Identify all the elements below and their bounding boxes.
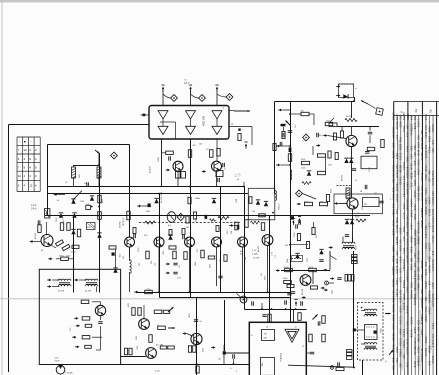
box IC2 outline [249, 322, 306, 375]
capacitor C79 [288, 130, 292, 132]
resistor R82 [157, 325, 165, 330]
svg-text:78017: 78017 [395, 277, 399, 285]
svg-text:82965: 82965 [402, 112, 406, 120]
wire block1 top y144 [48, 144, 130, 146]
chain R33 [182, 229, 185, 240]
label mr1 [316, 235, 318, 238]
svg-text:4M: 4M [264, 338, 267, 340]
capacitor C99 [300, 301, 303, 305]
resistor R43 [205, 215, 208, 218]
svg-text:067: 067 [406, 124, 410, 129]
svg-text:2492: 2492 [402, 125, 406, 132]
svg-text:→: → [18, 140, 21, 144]
resistor R23 [82, 336, 102, 339]
terminal J1 [330, 366, 334, 370]
pin R64 left [297, 203, 301, 206]
wire ic left [233, 359, 235, 365]
svg-text:BC204: BC204 [35, 233, 37, 239]
capacitor C72 in box [365, 151, 369, 153]
svg-text:449: 449 [427, 170, 431, 175]
svg-text:534: 534 [424, 144, 428, 149]
svg-text:45624: 45624 [417, 167, 421, 175]
wire vertical x224 [224, 300, 226, 351]
wire vertical x220 [220, 187, 222, 293]
pin R21 [74, 317, 78, 320]
label rf2 [319, 135, 323, 137]
resistor R81 [154, 310, 170, 313]
label ts1 e [41, 250, 44, 252]
svg-text:3: 3 [236, 371, 237, 373]
label TR2 [85, 291, 92, 293]
svg-text:423: 423 [402, 354, 406, 359]
svg-text:14712: 14712 [420, 209, 424, 217]
svg-text:77400: 77400 [431, 235, 435, 243]
resistor R71 [367, 147, 375, 150]
svg-text:373: 373 [395, 134, 399, 139]
svg-text:T04/1,3: T04/1,3 [279, 204, 281, 210]
arrow pot1 [168, 307, 174, 312]
svg-text:63932: 63932 [424, 206, 428, 214]
svg-text:4446: 4446 [406, 145, 410, 152]
svg-text:02949: 02949 [431, 299, 435, 307]
svg-text:32567: 32567 [424, 335, 428, 343]
svg-text:10: 10 [295, 327, 297, 329]
svg-text:03340: 03340 [395, 265, 399, 273]
arrow output right of U1 [234, 110, 250, 112]
svg-text:3949: 3949 [417, 149, 421, 156]
label T04 [279, 204, 281, 210]
transformer TR5 core [365, 325, 378, 340]
diode D15 [90, 195, 94, 200]
svg-text:0085: 0085 [417, 283, 421, 290]
wire TS1 emitter diag [50, 245, 56, 249]
capacitor C91 [251, 301, 253, 305]
svg-text:73268: 73268 [424, 281, 428, 289]
scan left edge [2, 0, 3, 375]
wire bottom y364 [40, 364, 250, 366]
pin x281 y110 [278, 109, 290, 112]
svg-text:888: 888 [392, 357, 396, 362]
svg-text:7566: 7566 [427, 256, 431, 263]
label rf1 [295, 124, 297, 128]
svg-text:M: M [219, 358, 222, 360]
svg-text:8369: 8369 [417, 256, 421, 263]
resistor R4 [77, 229, 80, 237]
svg-text:3114: 3114 [424, 165, 428, 172]
svg-text:00905: 00905 [427, 264, 431, 272]
pin x323 y288 [321, 287, 325, 290]
transistor TS16 [262, 235, 273, 246]
svg-text:851: 851 [424, 261, 428, 266]
svg-text:3063: 3063 [146, 211, 150, 213]
transistor TS17 [300, 275, 311, 286]
transistor TS1 [41, 235, 53, 247]
wire y182 corner [243, 182, 245, 187]
label area c35 [80, 201, 90, 206]
arrow out right [385, 313, 390, 315]
label TS30b [136, 336, 138, 340]
label R61 [301, 159, 306, 170]
resistor R80 [132, 308, 141, 316]
svg-text:L·Br/Mic: L·Br/Mic [66, 373, 73, 375]
label u-ts13 [179, 262, 197, 268]
svg-text:81551: 81551 [420, 316, 424, 324]
capacitor C1 [86, 182, 89, 186]
svg-text:581: 581 [406, 182, 410, 187]
label 5W [328, 165, 332, 167]
svg-text:28038: 28038 [392, 333, 396, 341]
svg-text:470: 470 [406, 132, 410, 137]
diamond node D14 [303, 134, 310, 141]
label BC148 [302, 288, 304, 295]
transistor TS20 [346, 135, 357, 146]
pin P1 above U1 [161, 85, 164, 92]
svg-text:4922: 4922 [424, 131, 428, 138]
svg-text:00847: 00847 [406, 274, 410, 282]
resistor R75 [289, 111, 309, 116]
svg-text:51402: 51402 [399, 176, 403, 184]
wire bus y186 [48, 186, 245, 188]
pin TR2 a [74, 279, 78, 282]
svg-text:269: 269 [399, 362, 403, 367]
label R80 [128, 303, 130, 307]
svg-text:5096: 5096 [413, 270, 417, 277]
svg-text:4650: 4650 [392, 209, 396, 216]
svg-text:38(2P4): 38(2P4) [120, 221, 122, 228]
svg-text:12%: 12% [177, 278, 181, 280]
svg-text:682: 682 [413, 286, 417, 291]
pin arrow x287 [286, 121, 291, 126]
wire U1 col 3 inner [216, 119, 218, 126]
svg-text:87780: 87780 [420, 152, 424, 160]
svg-text:12: 12 [24, 148, 28, 152]
svg-text:2200: 2200 [413, 229, 417, 236]
wire U1 inner feedback [160, 122, 176, 139]
resistor R51 [245, 220, 248, 228]
resistor R29 on x129 [120, 211, 131, 228]
svg-text:933: 933 [392, 365, 396, 370]
wire vertical x129 [129, 145, 131, 238]
resistor R44 [188, 197, 191, 204]
wire vertical x73 [73, 216, 75, 293]
diode D6 on bus215 [72, 212, 76, 217]
svg-text:2x41: 2x41 [332, 290, 334, 294]
svg-text:104: 104 [231, 231, 233, 234]
svg-text:995: 995 [431, 293, 435, 298]
svg-text:23760: 23760 [406, 346, 410, 354]
component R87 [196, 366, 199, 373]
svg-text:83170: 83170 [409, 329, 413, 337]
svg-text:1k2: 1k2 [155, 263, 157, 266]
pin ant1 [336, 85, 340, 88]
label connector [31, 205, 37, 211]
svg-text:412: 412 [395, 358, 399, 363]
label mid1 [123, 217, 125, 222]
svg-text:4862: 4862 [395, 217, 399, 224]
label mid-table [139, 263, 141, 266]
junction x354 y367 [353, 367, 355, 369]
wire bus y292 [136, 292, 291, 294]
svg-text:7006: 7006 [424, 174, 428, 181]
junction y101 x354 [353, 100, 355, 102]
transistor TS12 [154, 237, 164, 247]
svg-text:603: 603 [406, 362, 410, 367]
svg-text:4MHz: 4MHz [195, 198, 200, 200]
transistor TS14 [212, 237, 222, 247]
svg-text:5941: 5941 [424, 306, 428, 313]
svg-text:2684: 2684 [392, 245, 396, 252]
op-amp U1 stage 4 [186, 126, 196, 134]
svg-text:0195: 0195 [427, 146, 431, 153]
svg-text:90798: 90798 [431, 177, 435, 185]
svg-text:4875: 4875 [189, 313, 191, 317]
table measurements values [392, 112, 435, 370]
label q1 [138, 247, 140, 252]
svg-text:8137: 8137 [406, 327, 410, 334]
svg-text:5/3,5: 5/3,5 [328, 165, 332, 167]
resistor R95 [336, 367, 344, 370]
svg-text:Sp: Sp [428, 109, 432, 113]
diamond node D11 [376, 108, 384, 116]
junction dot d [289, 145, 291, 271]
label 5806b [295, 309, 298, 311]
wire stub x313 [312, 270, 314, 284]
pin below TS6 [202, 170, 206, 173]
svg-text:3337: 3337 [402, 202, 406, 209]
capacitor C80 [189, 313, 203, 323]
label pin8 [232, 123, 234, 126]
svg-text:633: 633 [395, 209, 399, 214]
svg-text:470: 470 [220, 259, 222, 262]
junction sub-box [272, 212, 274, 214]
coil S201 sec [346, 188, 350, 199]
diode D5 on bus215 [59, 212, 63, 217]
wire bus y297 [160, 297, 291, 299]
svg-text:4822 209: 4822 209 [203, 115, 206, 126]
wire x313 up [313, 222, 315, 228]
pin y146 x279 [276, 145, 290, 148]
svg-text:623: 623 [417, 319, 421, 324]
capacitor C60 [295, 224, 298, 228]
svg-text:90786: 90786 [392, 279, 396, 287]
wire TS14 down [216, 247, 218, 286]
label 3707 [307, 258, 309, 262]
resistor R73b [328, 151, 331, 158]
svg-text:46049: 46049 [413, 190, 417, 198]
svg-text:12: 12 [18, 174, 22, 178]
svg-text:203: 203 [417, 266, 421, 271]
svg-text:8852: 8852 [409, 264, 413, 271]
svg-text:993: 993 [413, 115, 417, 120]
svg-text:74633: 74633 [402, 263, 406, 271]
resistor R22 [85, 324, 92, 327]
label BC204 [35, 233, 37, 239]
svg-text:3070: 3070 [265, 276, 267, 280]
svg-text:mV: mV [414, 109, 418, 113]
svg-text:3062: 3062 [413, 213, 417, 220]
wire vertical x269 [269, 216, 271, 323]
diode D38 [281, 124, 286, 137]
svg-text:96929: 96929 [431, 123, 435, 131]
svg-text:325: 325 [420, 137, 424, 142]
resistor R67 on y270 [284, 267, 292, 272]
svg-text:227: 227 [395, 250, 399, 255]
capacitor C50 [237, 225, 239, 229]
svg-text:608: 608 [420, 289, 424, 294]
transformer TR2 [79, 279, 98, 286]
svg-text:3132: 3132 [406, 238, 410, 245]
resistor R64 [304, 202, 313, 206]
pin TS32 base [183, 332, 192, 336]
svg-text:0780: 0780 [417, 346, 421, 353]
svg-text:15640: 15640 [402, 340, 406, 348]
svg-text:636: 636 [424, 225, 428, 230]
pin ant2 [336, 94, 340, 97]
svg-text:29975: 29975 [395, 183, 399, 191]
svg-text:8716: 8716 [413, 170, 417, 177]
svg-text:21: 21 [302, 346, 304, 348]
capacitor C30 [112, 253, 115, 256]
box R16 below TS6 [216, 171, 223, 183]
svg-text:42486: 42486 [406, 254, 410, 262]
svg-text:1605: 1605 [420, 329, 424, 336]
svg-text:805: 805 [395, 258, 399, 263]
resistor R63 [318, 171, 326, 174]
svg-text:515: 515 [427, 290, 431, 295]
junction e [261, 308, 286, 310]
svg-text:67612: 67612 [395, 169, 399, 177]
svg-text:20521: 20521 [431, 224, 435, 232]
wire TS5 emitter [177, 172, 179, 187]
resistor R20 [81, 300, 100, 305]
svg-text:409: 409 [413, 152, 417, 157]
svg-text:18437: 18437 [427, 196, 431, 204]
svg-text:6020: 6020 [402, 293, 406, 300]
svg-text:471: 471 [392, 203, 396, 208]
svg-text:04457: 04457 [427, 306, 431, 314]
diode D4 [71, 198, 75, 203]
svg-text:4834: 4834 [399, 244, 403, 251]
resistor R55 [238, 134, 241, 141]
connector K1 on x47 [45, 209, 50, 219]
wire x217 down [216, 139, 218, 161]
table measurements columns [394, 116, 437, 375]
capacitor C20 [98, 316, 102, 324]
wire TS16 down [267, 246, 269, 293]
label fm3 [360, 191, 362, 193]
pin TR3 [329, 246, 333, 249]
arrow pot2 [168, 327, 175, 329]
svg-text:0369: 0369 [424, 198, 428, 205]
transformer TR6 [361, 343, 377, 350]
diamond node D10 [296, 190, 303, 197]
svg-text:148: 148 [245, 257, 247, 260]
svg-text:60n: 60n [168, 225, 171, 227]
svg-text:61436: 61436 [406, 305, 410, 313]
crystal X1 [167, 212, 176, 223]
resistor R30 [109, 246, 116, 249]
label pf [237, 179, 240, 181]
black node bus [291, 216, 294, 219]
svg-text:5787: 5787 [413, 326, 417, 333]
pin M1 [219, 351, 250, 360]
label fm2 [374, 193, 377, 195]
resistor R86 [188, 346, 196, 353]
wire U1 col 1 up [162, 90, 164, 106]
label q2 [197, 248, 199, 252]
svg-text:66850: 66850 [417, 236, 421, 244]
component on x290 top [289, 148, 292, 153]
svg-text:1,3: 1,3 [275, 255, 277, 258]
capacitor C66 [316, 133, 319, 137]
wire TS6 emitter [216, 172, 218, 187]
label mr2 [285, 245, 288, 247]
svg-text:91922: 91922 [420, 172, 424, 180]
svg-text:205: 205 [364, 204, 367, 206]
svg-text:04544: 04544 [409, 199, 413, 207]
svg-text:202: 202 [139, 263, 141, 266]
pin P2 above U1 [189, 85, 192, 92]
svg-text:2594: 2594 [417, 141, 421, 148]
svg-text:1285: 1285 [158, 156, 160, 162]
wire stub x330b [329, 251, 331, 270]
diode D37 [295, 253, 299, 258]
pin arrow x319 [316, 144, 320, 147]
svg-text:8108: 8108 [413, 361, 417, 368]
terminal J2 [325, 281, 334, 285]
svg-text:14: 14 [251, 335, 253, 337]
electrolytic C77 [345, 275, 354, 282]
resistor R9 [98, 195, 104, 203]
svg-text:61995: 61995 [413, 237, 417, 245]
dashed core S201 [331, 186, 353, 194]
resistor R83 [149, 335, 152, 343]
svg-text:120: 120 [431, 147, 435, 152]
diode D35 [307, 170, 311, 175]
label 12pc [177, 278, 181, 280]
scan top edge [0, 0, 439, 3]
scan fold line y298 [0, 298, 439, 300]
capacitor C73 [379, 201, 383, 203]
transistor TS11 [125, 237, 135, 247]
diode D42 [345, 219, 354, 224]
pin TR1 b [47, 285, 51, 288]
resistor R60 [288, 154, 291, 162]
resistor R84 [160, 346, 174, 349]
pin y297 right [302, 296, 306, 299]
diode D36 [319, 249, 323, 254]
wire U1 col 3 up [216, 90, 218, 106]
label 49.478 A [160, 192, 163, 203]
label u-ts16 [258, 246, 260, 252]
svg-text:68: 68 [360, 191, 362, 193]
svg-text:■: ■ [24, 140, 26, 144]
svg-text:873: 873 [399, 267, 403, 272]
resistor R11 [162, 151, 174, 154]
svg-text:240: 240 [399, 239, 403, 244]
resistor R74 [340, 131, 343, 138]
transistor TS32 [191, 333, 202, 344]
resistor R68 on y270 [309, 267, 317, 272]
transformer TR3 [342, 237, 357, 251]
svg-text:1304: 1304 [236, 199, 238, 203]
capacitor C63 [319, 259, 323, 262]
capacitor C34 [218, 276, 222, 279]
diode D32 [212, 198, 216, 203]
pin x214 y347 [211, 346, 215, 349]
box R15 below TS5 [176, 172, 186, 179]
svg-text:7774: 7774 [392, 323, 396, 330]
